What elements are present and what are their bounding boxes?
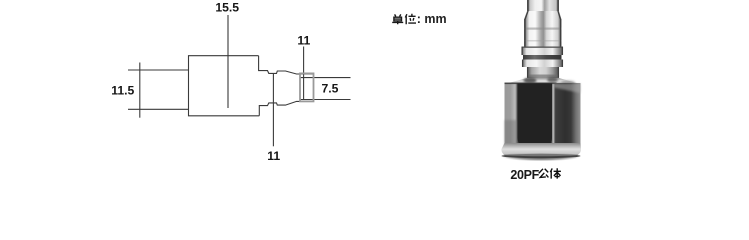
top profile bbox=[259, 56, 314, 74]
svg-text:: mm: : mm bbox=[417, 12, 447, 26]
体 bbox=[550, 168, 552, 178]
bottom profile bbox=[259, 101, 313, 115]
11.5 dimension lines bbox=[128, 69, 189, 71]
svg-text:11: 11 bbox=[297, 33, 310, 47]
位 bbox=[405, 14, 407, 24]
upper cylinder bbox=[524, 19, 562, 47]
公 bbox=[539, 169, 549, 174]
flange bbox=[522, 47, 564, 56]
ground shadow bbox=[502, 153, 580, 161]
chamfer reflections bbox=[524, 77, 576, 84]
second ring bbox=[522, 60, 563, 68]
bottom dark edge bbox=[502, 154, 581, 158]
7.5 dimension lines bbox=[300, 77, 351, 79]
hex top chamfer bbox=[505, 78, 581, 84]
bottom 11 leader bbox=[272, 73, 274, 146]
right facet top highlight bbox=[554, 84, 581, 94]
neck bbox=[527, 67, 559, 78]
svg-text:11.5: 11.5 bbox=[111, 84, 134, 98]
body outline bbox=[189, 56, 260, 116]
20PF 公体 label bbox=[510, 168, 561, 182]
taper bbox=[524, 11, 562, 20]
单 bbox=[395, 14, 401, 16]
svg-text:15.5: 15.5 bbox=[215, 0, 239, 14]
hex bottom chamfer bbox=[501, 143, 581, 157]
silhouette edge lines bbox=[522, 0, 562, 78]
svg-text:7.5: 7.5 bbox=[322, 81, 339, 95]
svg-text:11: 11 bbox=[267, 149, 280, 163]
groove bbox=[523, 55, 562, 60]
hex front dark face (rounded bottom) bbox=[518, 84, 553, 150]
svg-text:20PF: 20PF bbox=[510, 168, 539, 182]
gray tip rectangle bbox=[300, 73, 314, 101]
单位：mm label bbox=[392, 12, 446, 26]
hex body bbox=[505, 83, 581, 147]
15.5 leader bbox=[227, 15, 229, 108]
left facet bottom shade bbox=[505, 120, 518, 146]
dimension labels bbox=[111, 0, 338, 163]
tip cylinder bbox=[527, 0, 559, 12]
top 11 leader bbox=[303, 47, 305, 100]
